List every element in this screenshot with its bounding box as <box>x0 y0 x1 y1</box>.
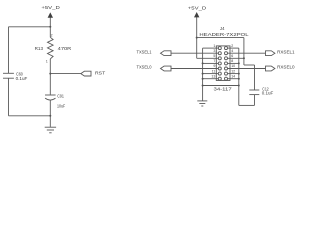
svg-text:9: 9 <box>213 64 215 68</box>
svg-text:2: 2 <box>51 34 53 38</box>
svg-text:6: 6 <box>231 54 233 58</box>
svg-text:470R: 470R <box>58 46 72 52</box>
svg-text:10: 10 <box>231 64 235 68</box>
svg-text:1: 1 <box>46 60 48 64</box>
svg-text:HEADER-7X2POL: HEADER-7X2POL <box>199 32 249 38</box>
svg-text:3: 3 <box>213 49 215 53</box>
svg-text:RXSEL0: RXSEL0 <box>277 65 295 71</box>
svg-text:34-117: 34-117 <box>214 87 233 93</box>
svg-text:C91: C91 <box>57 94 64 100</box>
svg-text:2: 2 <box>231 44 233 48</box>
svg-text:1: 1 <box>213 44 215 48</box>
svg-text:TXSEL0: TXSEL0 <box>137 65 152 71</box>
svg-text:4: 4 <box>231 49 233 53</box>
svg-text:J4: J4 <box>220 26 225 32</box>
svg-text:13: 13 <box>211 74 215 78</box>
svg-text:R13: R13 <box>35 46 44 52</box>
svg-text:8: 8 <box>231 59 233 63</box>
svg-text:RST: RST <box>95 71 105 77</box>
svg-text:14: 14 <box>231 74 235 78</box>
svg-text:7: 7 <box>213 59 215 63</box>
svg-text:+5V_D: +5V_D <box>188 6 207 12</box>
svg-text:RXSEL1: RXSEL1 <box>277 49 295 55</box>
svg-text:5: 5 <box>213 54 215 58</box>
svg-text:+5V_D: +5V_D <box>41 5 60 11</box>
svg-text:TXSEL1: TXSEL1 <box>137 49 152 55</box>
svg-text:12: 12 <box>231 69 235 73</box>
svg-text:11: 11 <box>212 69 216 73</box>
svg-text:0.1uF: 0.1uF <box>262 91 274 97</box>
svg-text:0.1uF: 0.1uF <box>16 76 28 82</box>
svg-text:10uF: 10uF <box>57 103 65 109</box>
